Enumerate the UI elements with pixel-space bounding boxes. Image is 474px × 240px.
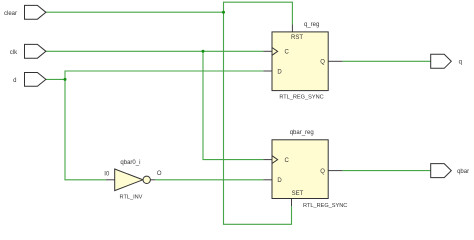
svg-text:O: O [157,171,162,177]
svg-text:q_reg: q_reg [304,22,319,28]
svg-text:Q: Q [320,169,325,175]
svg-text:SET: SET [292,191,304,197]
svg-text:D: D [277,178,282,184]
node: clear junction dot [222,11,225,14]
svg-text:qbar_reg: qbar_reg [290,130,314,136]
register q_reg body [272,32,328,91]
svg-text:RTL_INV: RTL_INV [120,194,143,200]
wire: clk branch to C of qbar_reg [203,51,263,159]
svg-text:qbar0_i: qbar0_i [120,160,140,166]
wire: q_reg Q to q port [342,60,430,62]
node: clk junction dot [202,50,205,53]
wire: d net from port to junction [46,78,65,80]
clock wedge q_reg C [272,48,278,56]
wire: d branch down to inverter input [65,79,106,179]
pin stub: q_reg Q [328,60,342,62]
wire: inverter output to D of qbar_reg [155,179,263,181]
svg-text:d: d [13,78,16,84]
svg-text:I0: I0 [104,172,110,178]
pin stub: qbar_reg D [263,179,272,181]
svg-text:Q: Q [320,60,325,66]
clock wedge qbar_reg C [272,156,278,164]
wire: clk net to C of q_reg [46,50,263,52]
pin stub: q_reg C [263,50,272,52]
inverter bubble [143,176,150,183]
svg-text:q: q [459,60,462,66]
wire: clear lower branch to SET of qbar_reg [224,12,292,224]
output port qbar [431,164,452,178]
svg-text:C: C [285,50,290,56]
pin stub: qbar_reg Q [328,170,342,172]
pin stub: qbar_reg C [263,159,272,161]
inverter qbar0_i triangle [115,169,143,191]
svg-text:RTL_REG_SYNC: RTL_REG_SYNC [303,203,347,209]
node: d junction dot [64,78,67,81]
pin stub: qbar_reg SET [291,199,293,207]
pin stub: inverter output O [150,179,155,181]
svg-text:D: D [277,69,282,75]
svg-text:clear: clear [4,11,17,17]
pin stub: inverter input I0 [106,179,115,181]
wire: clear net from port to junction [46,11,224,13]
input port clk [25,44,46,58]
register qbar_reg body [272,140,328,199]
wire: qbar_reg Q to qbar port [342,170,430,172]
svg-text:RTL_REG_SYNC: RTL_REG_SYNC [279,95,323,101]
pin stub: q_reg D [263,70,272,72]
svg-text:clk: clk [10,50,18,56]
input port d [25,73,46,87]
wire: d branch to D of q_reg [65,71,263,79]
svg-text:C: C [285,158,290,164]
svg-text:RST: RST [291,35,303,41]
pin stub: q_reg RST [291,25,293,32]
svg-text:qbar: qbar [457,169,469,175]
wire: clear upper branch to RST of q_reg [224,2,293,24]
input port clear [25,5,46,19]
output port q [431,54,452,68]
